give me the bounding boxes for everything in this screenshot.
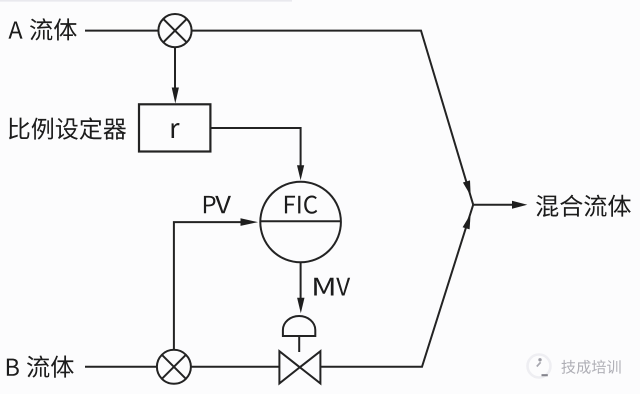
label: 流体 after B bbox=[27, 355, 74, 377]
arrowhead: into FIC top bbox=[297, 165, 304, 180]
top edge jpeg artifact bbox=[0, 0, 292, 2]
label: MV bbox=[314, 278, 333, 296]
flow sensor FT-A (crossed circle on A-line) bbox=[158, 14, 191, 47]
ratio setter value r bbox=[172, 123, 180, 138]
label: PV bbox=[204, 196, 215, 213]
valve actuator dome bbox=[283, 316, 315, 336]
arrowhead: outlet bbox=[512, 201, 527, 209]
wire: PV from sensor-B up into FIC bbox=[174, 222, 242, 350]
wire: junction to outlet arrow bbox=[473, 204, 513, 206]
control valve body right triangle bbox=[300, 351, 321, 383]
watermark logo bbox=[528, 355, 551, 378]
arrowhead: MV into actuator bbox=[297, 298, 304, 314]
valve stem bbox=[298, 336, 300, 352]
arrowhead: B diagonal at junction bbox=[463, 214, 471, 229]
wire: A-line sensor to corner, diagonal down to junction bbox=[192, 31, 474, 205]
wire: sensor-A down to ratio box bbox=[174, 48, 176, 89]
label: A (fluid A) bbox=[8, 21, 22, 38]
watermark text 技成培训 bbox=[561, 360, 620, 374]
label: 流体 after A bbox=[30, 18, 77, 40]
wire: MV from FIC down to actuator bbox=[300, 262, 302, 299]
ratio setter box bbox=[139, 104, 210, 151]
FIC tag text bbox=[285, 195, 317, 213]
arrowhead: A diagonal at junction bbox=[463, 180, 471, 195]
arrowhead: PV into FIC left bbox=[241, 218, 259, 226]
label: 比例设定器 (ratio setter) bbox=[9, 117, 126, 139]
label: 混合流体 (mixed fluid) bbox=[536, 195, 631, 217]
label: B (fluid B) bbox=[7, 359, 19, 376]
control valve body left triangle bbox=[279, 351, 299, 383]
controller FIC circle bbox=[260, 182, 341, 263]
wire: ratio box to FIC elbow bbox=[210, 128, 300, 166]
arrowhead: into ratio box bbox=[172, 88, 179, 104]
label: MV letter V bbox=[336, 278, 350, 296]
wire: A-line from label to sensor bbox=[85, 30, 158, 32]
label: PV letter V bbox=[215, 196, 231, 213]
flow sensor FT-B (crossed circle on B-line) bbox=[157, 350, 191, 384]
wire: B-line valve to corner, diagonal up to junction bbox=[320, 205, 473, 367]
FIC diameter line bbox=[260, 220, 341, 222]
wire: B-line sensor to valve bbox=[191, 366, 280, 368]
wire: B-line from label to sensor bbox=[85, 366, 157, 368]
